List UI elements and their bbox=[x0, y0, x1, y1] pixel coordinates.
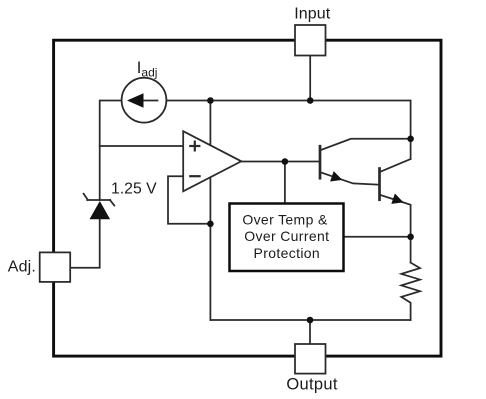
wire op-amp non-inverting input bbox=[100, 145, 184, 147]
IC outline box bbox=[54, 40, 441, 356]
wire mid vertical rail (x=210) behind op-amp bbox=[209, 101, 211, 321]
wire op-amp inverting feedback bbox=[168, 176, 210, 224]
svg-text:1.25 V: 1.25 V bbox=[111, 181, 157, 198]
protection block bbox=[230, 204, 344, 272]
pin pad Input bbox=[295, 25, 326, 56]
svg-text:Adj.: Adj. bbox=[8, 259, 36, 276]
wire op-amp output to Q1 base bbox=[241, 161, 320, 163]
label protection block text bbox=[242, 212, 329, 261]
wire output stem bbox=[309, 320, 311, 344]
pin pad Output bbox=[295, 344, 326, 374]
svg-text:Iadj: Iadj bbox=[137, 59, 158, 80]
transistor Q1 bbox=[320, 139, 411, 185]
wire zener anode to Adj pin bbox=[70, 219, 100, 268]
wire protection box to emitter rail bbox=[345, 236, 411, 238]
svg-text:Protection: Protection bbox=[254, 245, 321, 261]
junction node op-amp output bbox=[282, 158, 289, 165]
junction node on top rail at input stem bbox=[307, 97, 314, 104]
wire current source left lead and reference rail down to zener bbox=[100, 101, 122, 201]
wire bottom rail bbox=[210, 319, 410, 321]
pin pad Adj bbox=[40, 252, 70, 282]
svg-text:Input: Input bbox=[294, 6, 331, 23]
transistor Q2 bbox=[380, 159, 411, 263]
junction node Q1 collector bbox=[407, 136, 414, 143]
junction node inverting feedback bbox=[207, 221, 214, 228]
zener diode 1.25V reference bbox=[84, 194, 115, 220]
wire top rail from current source to upper-right corner bbox=[167, 101, 411, 160]
op-amp U1 bbox=[183, 131, 241, 191]
junction node bottom rail at output stem bbox=[307, 317, 314, 324]
current source Iadj bbox=[122, 78, 167, 123]
svg-text:Over Temp &: Over Temp & bbox=[242, 212, 328, 228]
wire protection box stem bbox=[284, 162, 286, 203]
junction node emitter rail bbox=[407, 234, 414, 241]
resistor R1 bbox=[401, 263, 420, 320]
svg-text:Output: Output bbox=[286, 375, 337, 393]
svg-text:Over Current: Over Current bbox=[244, 228, 329, 244]
wire input stem bbox=[309, 56, 311, 101]
junction node on top rail at mid vertical bbox=[207, 97, 214, 104]
